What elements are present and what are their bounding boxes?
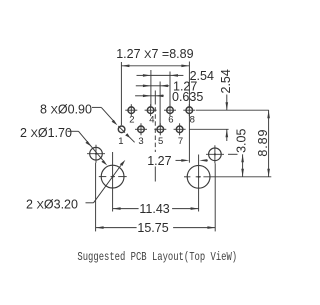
label 8x0.90 with leader to pin hole 1 xyxy=(40,102,135,142)
extension line from left medium hole down xyxy=(95,163,97,232)
pin hole 6 (with number) xyxy=(164,104,176,125)
dimension 1.27: value text xyxy=(173,79,197,93)
svg-text:7: 7 xyxy=(178,136,183,147)
svg-text:6: 6 xyxy=(168,115,173,126)
mounting hole left medium (dia 1.70) xyxy=(87,145,105,163)
svg-text:8: 8 xyxy=(190,115,195,126)
pin hole 5 (with number) xyxy=(154,123,166,147)
dimension 1.27x7=8.89 top: extension line left (pin1 column) xyxy=(120,62,122,125)
svg-text:1.27: 1.27 xyxy=(147,154,171,168)
label 2x1.70 with leader through left medium hole xyxy=(20,126,107,166)
extension line pin8 column lower segment xyxy=(188,114,190,163)
dimension 11.43 bottom: line with arrows and text xyxy=(113,202,199,216)
svg-text:5: 5 xyxy=(158,136,163,147)
dimension 1.27 (pins 4-5): arrows and line xyxy=(136,85,169,88)
dimension 2.54 vertical (row spacing): arrows xyxy=(226,95,229,142)
dimension 2.54: value text xyxy=(190,69,214,83)
svg-text:4: 4 xyxy=(149,115,154,126)
dimension 0.635: value text xyxy=(172,90,203,104)
wire: top pin row extension to the right xyxy=(196,109,269,111)
pin hole 8 (with number) xyxy=(183,104,195,125)
svg-text:2.54: 2.54 xyxy=(219,69,233,93)
dimension 15.75 bottom: line with arrows and text xyxy=(96,221,216,235)
pin hole 1 (with number) xyxy=(118,126,125,147)
svg-text:2: 2 xyxy=(129,115,134,126)
dimension 8.89 vertical: line with arrows xyxy=(267,110,270,177)
mounting hole right medium (dia 1.70) xyxy=(206,145,224,163)
svg-text:1.27 X7 =8.89: 1.27 X7 =8.89 xyxy=(116,47,193,61)
svg-text:3.05: 3.05 xyxy=(235,129,249,153)
dimension 8.89: value text (rotated) xyxy=(256,129,270,157)
svg-text:1: 1 xyxy=(118,136,123,147)
pin hole 2 (with number) xyxy=(125,104,137,125)
extension line pin6 column xyxy=(169,72,171,107)
dimension 1.27x7=8.89 top: dimension line with arrows xyxy=(121,65,189,68)
pin hole 3 (with number) xyxy=(135,123,147,147)
svg-text:2 XØ1.70: 2 XØ1.70 xyxy=(20,126,72,140)
dimension 1.27x7=8.89 top: value text xyxy=(116,47,193,61)
caption: Suggested PCB Layout(Top View) xyxy=(77,251,237,265)
dimension 0.635 (pin4 to centerline): arrows and line xyxy=(135,95,164,98)
dimension 2.54 (row pitch, pins 4-6): arrows and line xyxy=(137,74,184,77)
svg-text:15.75: 15.75 xyxy=(137,221,168,235)
svg-text:11.43: 11.43 xyxy=(139,202,169,216)
mounting hole right big (dia 3.20) xyxy=(184,155,210,212)
dimension 1.27 middle (pin8 col to right big hole): text and arrows xyxy=(147,154,208,168)
wire: right big hole centerline extension to the right xyxy=(203,176,271,178)
svg-text:0.635: 0.635 xyxy=(172,90,203,104)
svg-text:3: 3 xyxy=(138,136,143,147)
mounting hole left big (dia 3.20) xyxy=(99,152,127,212)
pin hole 7 (with number) xyxy=(174,123,186,147)
wire: right medium hole centerline extension to the right xyxy=(228,153,238,155)
extension line from right medium hole down xyxy=(214,163,216,231)
dimension 2.54 vertical: value text (rotated) xyxy=(219,69,233,93)
svg-text:2 XØ3.20: 2 XØ3.20 xyxy=(26,198,78,212)
wire: bottom pin row extension to the right xyxy=(189,128,228,130)
svg-text:8.89: 8.89 xyxy=(256,129,270,157)
svg-text:Suggested PCB Layout(Top VieW): Suggested PCB Layout(Top VieW) xyxy=(77,251,237,265)
centerline (dash-dot) of connector xyxy=(154,91,156,182)
dimension 3.05: value text (rotated) xyxy=(235,129,249,153)
dimension 3.05 vertical: line with arrows xyxy=(241,154,244,177)
extension line pin5 column xyxy=(159,82,161,126)
dimension 1.27x7=8.89 top: extension line right (pin8 column) xyxy=(188,62,190,107)
svg-text:8 XØ0.90: 8 XØ0.90 xyxy=(40,102,92,116)
extension line pin4 column xyxy=(150,70,152,106)
pin hole 4 (with number) xyxy=(145,104,157,125)
label 2x3.20 with leader through left big hole xyxy=(26,160,125,212)
